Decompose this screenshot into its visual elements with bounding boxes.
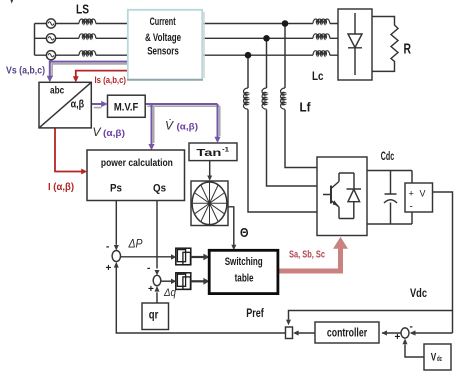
svg-text:V: V	[93, 125, 102, 139]
svg-text:+: +	[409, 189, 414, 199]
svg-text:-1: -1	[222, 147, 229, 154]
svg-text:Sa, Sb, Sc: Sa, Sb, Sc	[289, 249, 325, 261]
svg-text:I (α,β): I (α,β)	[48, 182, 74, 193]
svg-text:α,β: α,β	[71, 99, 85, 111]
svg-text:Tan: Tan	[196, 147, 221, 159]
svg-text:(α,β): (α,β)	[103, 128, 125, 139]
svg-text:V: V	[431, 351, 437, 363]
svg-text:-: -	[106, 242, 109, 253]
svg-text:Sensors: Sensors	[147, 46, 179, 58]
svg-text:ΔP: ΔP	[128, 237, 143, 251]
svg-text:-: -	[410, 322, 413, 333]
svg-text:V̇: V̇	[165, 119, 174, 133]
svg-text:Vs (a,b,c): Vs (a,b,c)	[6, 65, 45, 77]
svg-text:Θ: Θ	[240, 225, 249, 240]
svg-text:dc: dc	[437, 356, 442, 363]
svg-text:Vdc: Vdc	[410, 288, 427, 300]
svg-text:power calculation: power calculation	[101, 158, 173, 169]
svg-text:abc: abc	[50, 86, 65, 97]
svg-text:LS: LS	[76, 1, 89, 16]
svg-text:Lc: Lc	[312, 69, 324, 83]
svg-text:Cdc: Cdc	[381, 151, 395, 163]
svg-text:+: +	[106, 263, 112, 274]
svg-text:-: -	[147, 263, 150, 274]
svg-text:+: +	[395, 332, 401, 343]
svg-text:qr: qr	[149, 308, 159, 322]
svg-text:Current: Current	[150, 16, 176, 28]
svg-text:Switching: Switching	[225, 256, 263, 268]
svg-text:+: +	[148, 284, 154, 295]
svg-text:Pref: Pref	[246, 306, 264, 320]
svg-text:& Voltage: & Voltage	[145, 32, 181, 44]
svg-text:Lf: Lf	[300, 101, 312, 115]
svg-text:V: V	[420, 189, 426, 199]
svg-text:controller: controller	[327, 326, 368, 340]
svg-text:Qs: Qs	[153, 183, 166, 195]
svg-text:M.V.F: M.V.F	[114, 101, 139, 113]
svg-text:Is (a,b,c): Is (a,b,c)	[95, 75, 127, 86]
svg-text:table: table	[235, 273, 254, 285]
svg-text:Ps: Ps	[110, 183, 122, 195]
svg-text:(α,β): (α,β)	[177, 122, 199, 133]
svg-text:R: R	[404, 42, 412, 58]
svg-text:Δq: Δq	[163, 287, 177, 299]
svg-text:-: -	[410, 202, 413, 213]
